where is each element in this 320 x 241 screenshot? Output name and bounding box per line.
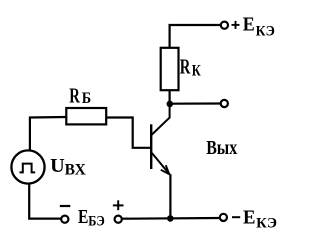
wire emitter down xyxy=(169,174,171,218)
node emitter junction xyxy=(167,215,174,222)
wire base xyxy=(106,118,151,148)
svg-text:ВХ: ВХ xyxy=(65,161,87,178)
terminal output xyxy=(221,100,228,107)
terminal +Екэ xyxy=(221,22,228,29)
resistor Rк xyxy=(161,48,179,90)
terminal −Екэ xyxy=(220,214,227,221)
svg-text:К: К xyxy=(192,62,201,79)
svg-text:Вых: Вых xyxy=(206,137,237,159)
label − (bottom right) xyxy=(232,216,240,218)
svg-text:КЭ: КЭ xyxy=(256,216,277,232)
svg-text:R: R xyxy=(180,54,191,78)
wire collector xyxy=(151,104,169,135)
source Uвх xyxy=(11,150,44,183)
transistor VT base bar xyxy=(150,124,152,169)
svg-text:КЭ: КЭ xyxy=(256,23,275,39)
label Ебэ xyxy=(78,206,105,229)
label + (bottom) xyxy=(113,200,124,210)
svg-text:Б: Б xyxy=(82,90,91,107)
svg-text:Е: Е xyxy=(243,207,256,229)
transistor VT emitter with arrow xyxy=(152,153,170,175)
wire bottom rail xyxy=(122,217,219,220)
svg-text:R: R xyxy=(69,84,80,108)
wire source to bottom rail xyxy=(29,183,61,218)
label Uвх xyxy=(50,155,87,178)
terminal +Ебэ xyxy=(115,216,122,223)
svg-text:U: U xyxy=(50,155,65,177)
wire top rail to +Екэ terminal xyxy=(170,25,221,48)
label Rб xyxy=(69,84,91,108)
svg-text:БЭ: БЭ xyxy=(88,213,105,229)
label Екэ (bottom) xyxy=(243,207,277,232)
wire Rб left to source xyxy=(30,117,66,151)
wire output tap xyxy=(170,102,220,104)
node collector junction xyxy=(167,101,174,108)
terminal −Ебэ xyxy=(61,216,68,223)
label + (top) xyxy=(232,21,240,29)
label Екэ (top) xyxy=(243,14,275,40)
svg-text:Е: Е xyxy=(78,206,88,228)
resistor Rб xyxy=(66,108,106,124)
label Rк xyxy=(180,54,201,79)
svg-text:Е: Е xyxy=(243,14,255,36)
wire Rк bottom to collector node xyxy=(169,90,171,104)
label − (left) xyxy=(60,205,71,207)
